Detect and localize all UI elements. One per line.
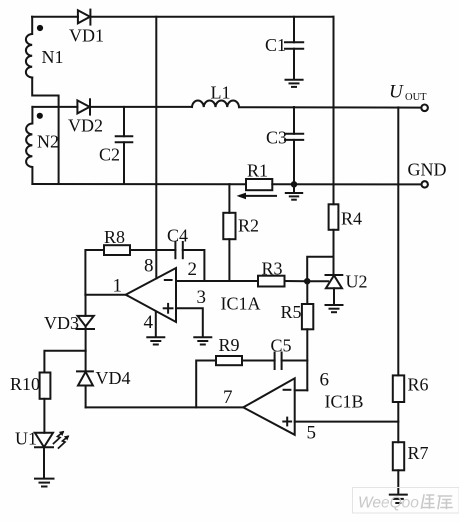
- ground below U1: [35, 479, 54, 487]
- terminal UOUT: [421, 105, 428, 112]
- capacitor C3: [285, 107, 303, 184]
- capacitor C2: [116, 107, 133, 184]
- svg-text:4: 4: [144, 312, 154, 333]
- wire IC1B pin5 to divider: [295, 421, 399, 423]
- svg-text:R10: R10: [10, 374, 40, 394]
- svg-text:R1: R1: [247, 161, 268, 181]
- wire output rail right (L1 right to UOUT terminal): [239, 106, 421, 108]
- svg-text:R9: R9: [219, 335, 240, 355]
- wire feedback divider line (UOUT rail down to R6): [397, 107, 399, 375]
- wire IC1B pin7 output: [86, 406, 244, 408]
- svg-text:R5: R5: [281, 302, 302, 322]
- winding N2: [26, 107, 43, 184]
- node R3-R5-U2 junction dot: [304, 278, 310, 284]
- wire R6 to R7: [397, 402, 399, 442]
- op-amp IC1A: [126, 268, 176, 322]
- resistor R1: [246, 179, 272, 190]
- ground below U2: [326, 305, 343, 312]
- svg-text:L1: L1: [211, 83, 231, 103]
- svg-text:7: 7: [223, 387, 233, 408]
- ground at IC1A pin4: [147, 337, 164, 344]
- diode VD1: [78, 10, 91, 25]
- svg-text:U1: U1: [15, 429, 37, 449]
- capacitor C5: [275, 353, 308, 370]
- wire ground rail right (R1 right to GND terminal): [272, 183, 421, 185]
- svg-text:2: 2: [188, 259, 198, 280]
- resistor R5: [302, 281, 313, 390]
- wire top rail left (N1 top to VD1 anode): [32, 16, 78, 18]
- svg-text:VD4: VD4: [96, 368, 131, 388]
- zener U2: [326, 275, 343, 305]
- svg-text:6: 6: [320, 370, 330, 391]
- diode VD4: [77, 351, 93, 408]
- resistor R2: [223, 184, 235, 281]
- svg-text:IC1A: IC1A: [221, 294, 261, 314]
- svg-text:WeeQoo: WeeQoo: [358, 495, 419, 512]
- svg-text:C2: C2: [99, 145, 120, 165]
- svg-text:R8: R8: [104, 227, 125, 247]
- svg-text:VD1: VD1: [69, 26, 104, 46]
- svg-text:C1: C1: [265, 35, 286, 55]
- svg-text:8: 8: [144, 256, 154, 277]
- ground below C3 node: [286, 184, 302, 199]
- wire ground rail left (N2 bottom to R1 left): [32, 183, 246, 185]
- watermark: [353, 488, 459, 514]
- ground below C1: [286, 80, 303, 87]
- resistor R10: [40, 373, 51, 433]
- wire top rail right (VD1 cathode to top-right corner): [90, 16, 333, 18]
- wire output rail left (N2 top to VD2 anode): [32, 106, 77, 108]
- svg-text:C4: C4: [167, 226, 188, 246]
- svg-text:N2: N2: [37, 132, 59, 152]
- svg-text:C5: C5: [271, 336, 292, 356]
- wire IC1B pin6: [295, 389, 308, 391]
- svg-text:R2: R2: [238, 216, 259, 236]
- svg-text:N1: N1: [42, 47, 64, 67]
- wire IC1A pin1 output: [85, 294, 125, 296]
- resistor R8: [85, 245, 130, 295]
- svg-text:R3: R3: [262, 259, 283, 279]
- wire IC1A pin2 to R3: [176, 280, 258, 282]
- svg-text:R4: R4: [341, 209, 362, 229]
- resistor R6: [393, 375, 404, 402]
- svg-text:U: U: [389, 82, 404, 103]
- wire N1 bottom jog to ground rail: [32, 78, 58, 185]
- diode VD3: [77, 295, 95, 351]
- current arrow under R1: [237, 193, 277, 200]
- resistor R7: [393, 442, 404, 494]
- svg-text:1: 1: [113, 276, 123, 297]
- ground below R7: [390, 495, 407, 503]
- resistor R4: [329, 17, 339, 275]
- wire IC1A pin3 to ground: [176, 308, 203, 337]
- wire output rail mid (VD2 cathode to L1 left): [90, 106, 192, 108]
- node C3-ground junction dot: [291, 181, 297, 187]
- svg-text:C3: C3: [266, 128, 287, 148]
- svg-text:U2: U2: [346, 272, 368, 292]
- svg-text:OUT: OUT: [405, 92, 427, 103]
- svg-text:5: 5: [307, 423, 317, 444]
- wire junction to U2 ref: [307, 280, 328, 282]
- wire VD node to R10: [44, 351, 85, 373]
- resistor R9: [196, 356, 274, 407]
- svg-text:R6: R6: [408, 375, 429, 395]
- svg-text:IC1B: IC1B: [325, 392, 364, 412]
- op-amp IC1B: [243, 378, 295, 435]
- svg-text:3: 3: [197, 287, 207, 308]
- wire R4 bottom jog to junction: [307, 257, 333, 281]
- capacitor C4: [175, 242, 204, 281]
- svg-text:R7: R7: [408, 443, 429, 463]
- ground at IC1A pin3: [194, 337, 211, 344]
- wire IC1A pin4 to ground: [155, 312, 157, 337]
- wire supply line from top rail to IC1A pin 8: [155, 17, 157, 279]
- svg-text:GND: GND: [408, 160, 447, 180]
- svg-text:VD3: VD3: [44, 313, 79, 333]
- resistor R3: [258, 276, 307, 287]
- wire R8 to C4: [130, 249, 175, 251]
- terminal GND: [422, 181, 428, 187]
- capacitor C1: [285, 17, 303, 80]
- svg-text:VD2: VD2: [68, 116, 103, 136]
- diode VD2: [77, 99, 90, 114]
- inductor L1: [192, 100, 239, 107]
- LED U1: [35, 432, 69, 479]
- winding N1: [26, 17, 43, 78]
